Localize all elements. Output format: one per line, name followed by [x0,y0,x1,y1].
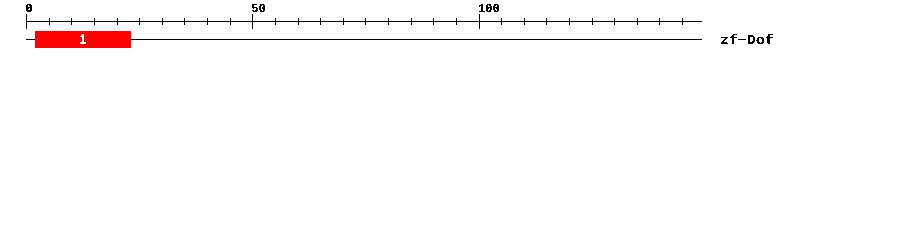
ruler line [26,21,702,22]
domain name zf-Dof [721,34,773,44]
sequence line [26,39,702,40]
ruler ticks (major at 0,50,100; minor every 5) [26,14,683,29]
ruler label 100 [479,4,499,12]
domain box (red) [35,31,131,48]
background [0,0,900,58]
ruler label 0 [26,4,32,12]
domain number 1 (white) [80,34,86,44]
ruler label 50 [252,4,265,12]
